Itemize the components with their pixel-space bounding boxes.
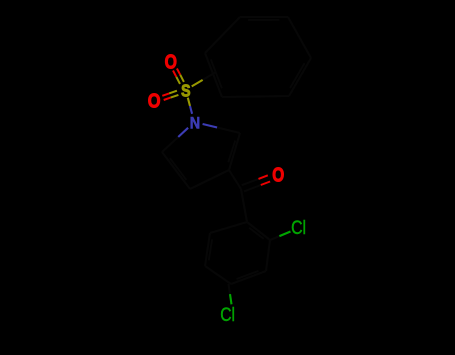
svg-text:O: O [165, 50, 177, 73]
S=O left double bond [169, 91, 177, 94]
svg-text:O: O [272, 164, 284, 186]
phenyl ring of sulfonyl (dark bonds) [240, 16, 288, 18]
bond S to phenyl ipso [192, 80, 203, 87]
bond pyrrole C3 to carbonyl carbon [229, 170, 241, 189]
bond to Cl (4-position) [229, 284, 231, 294]
svg-text:O: O [148, 90, 161, 113]
C=O ketone double bond [244, 185, 261, 191]
S-N bond [188, 98, 190, 106]
dichlorophenyl ring (dark bonds) [247, 222, 270, 240]
pyrrole ring [203, 124, 218, 128]
svg-text:S: S [181, 80, 190, 100]
svg-text:Cl: Cl [220, 305, 235, 326]
bond carbonyl C to dichlorophenyl ipso [241, 189, 247, 222]
svg-text:Cl: Cl [291, 218, 306, 239]
svg-text:N: N [190, 113, 200, 132]
S=O top double bond [180, 75, 184, 82]
bond to Cl (2-position) [270, 236, 279, 240]
